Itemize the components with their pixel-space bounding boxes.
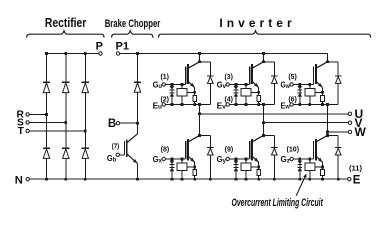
- svg-text:P: P: [96, 40, 103, 52]
- svg-text:W: W: [355, 125, 367, 139]
- svg-text:(11): (11): [349, 163, 362, 172]
- svg-text:Overcurrent Limiting Circuit: Overcurrent Limiting Circuit: [232, 197, 324, 209]
- svg-text:(6): (6): [288, 95, 297, 104]
- svg-text:(8): (8): [161, 144, 170, 153]
- svg-text:(4): (4): [224, 95, 233, 104]
- svg-text:T: T: [18, 126, 25, 137]
- svg-text:Brake Chopper: Brake Chopper: [105, 18, 161, 30]
- svg-text:B: B: [108, 118, 116, 130]
- svg-text:(3): (3): [224, 72, 233, 81]
- svg-text:(10): (10): [287, 144, 300, 153]
- svg-text:Rectifier: Rectifier: [45, 16, 87, 30]
- svg-text:(2): (2): [160, 95, 169, 104]
- svg-text:P1: P1: [116, 40, 129, 52]
- svg-text:(9): (9): [225, 144, 234, 153]
- svg-text:N: N: [15, 174, 23, 186]
- svg-text:(1): (1): [160, 72, 169, 81]
- svg-text:E: E: [353, 175, 361, 187]
- svg-text:(5): (5): [288, 72, 297, 81]
- svg-text:(7): (7): [112, 142, 120, 151]
